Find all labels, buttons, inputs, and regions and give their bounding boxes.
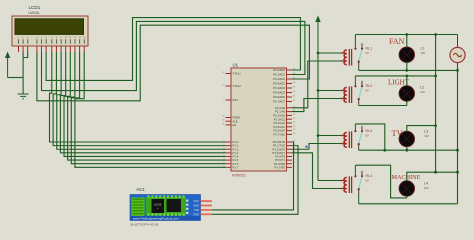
wire U1 P3.3 to RL4 coil [292, 153, 341, 189]
wire U1 P2.1 to RL2 coil [292, 99, 341, 112]
svg-text:5V: 5V [366, 133, 369, 137]
HC1 right pad column [186, 200, 188, 215]
svg-text:GND: GND [193, 204, 199, 208]
wire cell2 bottom [359, 105, 407, 107]
wire LCD D3 to U1 P1.3 [60, 52, 225, 153]
node L2 top junction [405, 75, 408, 78]
svg-text:P0.4/AD4: P0.4/AD4 [273, 86, 285, 90]
svg-text:12V: 12V [420, 90, 425, 94]
wire VCC tap RL4 [318, 180, 341, 182]
node L3 bottom junction [405, 149, 408, 152]
wire LCD RW to U1 P0.1 [42, 21, 305, 90]
wire LCD D2 to U1 P1.2 [57, 52, 226, 149]
HC1 header pads bottom [148, 213, 185, 216]
wire L3 top stub [407, 126, 436, 132]
U1 pin 23 P2.2/A10 [287, 114, 293, 116]
HC1 chip 2 [167, 199, 182, 212]
svg-text:FAN: FAN [389, 37, 405, 46]
relay RL1 contact [354, 43, 363, 67]
U1 pin 2 P1.1 [226, 145, 232, 147]
wire LCD E to U1 P0.0 [46, 18, 300, 81]
svg-text:P0.6/AD6: P0.6/AD6 [273, 95, 285, 99]
U1 pin 10 P3.0/RXD [287, 141, 293, 143]
svg-text:AT89C51: AT89C51 [232, 174, 246, 178]
HC1 banner www.TheEngineeringProjects.com [131, 216, 201, 220]
U1 pin 7 P1.6 [226, 163, 232, 165]
wire RL1 pole down [358, 67, 360, 70]
U1 pin 36 P0.3/AD3 [287, 83, 293, 85]
node cell3 leg junction [383, 149, 386, 152]
U1 pin 21 P2.0/A8 [287, 107, 293, 109]
U1 pin 28 P2.7/A15 [287, 133, 293, 135]
node rail-A cell3 junction [434, 124, 437, 127]
U1 pin 34 P0.5/AD5 [287, 92, 293, 94]
U1 pin 24 P2.3/A11 [287, 118, 293, 120]
power VCC arrow (left) [5, 52, 10, 78]
wire cell1 bottom [359, 69, 458, 71]
wire VCC tap RL3 [318, 135, 341, 137]
HC1 daughter board [146, 197, 186, 216]
wire VCC to VDD net [8, 77, 24, 79]
wire LCD D5 to U1 P1.5 [68, 52, 226, 160]
HC1 pin RXD [194, 212, 212, 216]
wire rail A [435, 35, 437, 173]
svg-text:RXD: RXD [194, 212, 200, 216]
U1 pin 3 P1.2 [226, 148, 232, 150]
node rail-A cell4 junction [434, 171, 437, 174]
relay RL3 coil [341, 131, 352, 148]
svg-text:P0.5/AD5: P0.5/AD5 [273, 91, 285, 95]
svg-text:RL2: RL2 [366, 84, 373, 88]
U1 pin 30 ALE [226, 120, 232, 122]
svg-text:P0.2/AD2: P0.2/AD2 [273, 77, 285, 81]
U1 pin 26 P2.5/A13 [287, 126, 293, 128]
svg-text:P2.7/A15: P2.7/A15 [273, 133, 285, 137]
svg-text:L3: L3 [424, 130, 428, 134]
wire cell3 bottom [359, 149, 458, 151]
node rail-A top junction [434, 33, 437, 36]
svg-text:P0.1/AD1: P0.1/AD1 [273, 73, 285, 77]
svg-text:EA: EA [233, 123, 237, 127]
svg-text:RL1: RL1 [366, 47, 373, 51]
relay RL4 coil [341, 176, 352, 193]
AC source V1 [450, 35, 465, 63]
wire VCC tap RL1 [318, 52, 341, 54]
node L1 top junction [405, 33, 408, 36]
U1 pin 29 PSEN [226, 117, 232, 119]
svg-text:12V: 12V [421, 51, 426, 55]
HC1 left connector [132, 198, 145, 217]
HC1 pin VCC [194, 199, 212, 203]
U1 pin 9 RST [226, 99, 232, 101]
svg-text:HC-05: HC-05 [154, 204, 162, 207]
wire RL4 common up [354, 165, 356, 171]
node VCC-RL2 junction [317, 89, 320, 92]
node VCC-RL3 junction [317, 134, 320, 137]
ground (left) [18, 94, 29, 99]
svg-text:TXD: TXD [194, 208, 199, 212]
HC1 chip 1 [152, 199, 165, 213]
lamp L3 [399, 131, 414, 146]
wire RL4 pole down [358, 195, 360, 204]
node L1 bottom junction [405, 69, 408, 72]
svg-text:RL3: RL3 [366, 129, 373, 133]
U1 pin 31 EA [226, 124, 232, 126]
wire cell3 top [355, 124, 384, 150]
U1 pin 16 P3.6/WR [287, 163, 293, 165]
wire VCC tap RL2 [318, 90, 341, 92]
wire LCD D6 to U1 P1.6 [71, 52, 225, 164]
power VCC arrow (right) [315, 16, 320, 54]
wire L4 bottom stub [406, 196, 408, 198]
U1 pin 13 P3.3/INT1 [287, 152, 293, 154]
wire HC1 TXD to U1 P3.0 [212, 142, 294, 210]
svg-text:5V: 5V [366, 51, 369, 55]
U1 pin 22 P2.1/A9 [287, 111, 293, 113]
wire LCD RS to U1 P0.2 [37, 25, 310, 101]
wire LCD D1 to U1 P1.1 [53, 52, 225, 146]
U1 pin 1 P1.0 [226, 141, 232, 143]
svg-text:RL4: RL4 [366, 174, 373, 178]
svg-text:LM016L: LM016L [29, 11, 41, 15]
wire LCD VSS/VDD down [22, 52, 24, 94]
svg-text:www.TheEngineeringProjects.com: www.TheEngineeringProjects.com [133, 216, 179, 220]
wire L3 bottom stub [406, 147, 408, 151]
node VCC-RL1 junction [317, 52, 320, 55]
svg-text:BLUETOOTH HC-05: BLUETOOTH HC-05 [131, 223, 159, 227]
wire RL3 common up [354, 124, 356, 126]
wire LCD D0 to U1 P1.0 [50, 52, 226, 142]
wire RL2 common up [354, 76, 356, 81]
wire LCD VEE jog [23, 52, 28, 58]
svg-text:L2: L2 [420, 86, 424, 90]
lamp L4 [399, 181, 414, 196]
wire LCD D7 to U1 P1.7 [75, 52, 226, 167]
wire RL2 pole down [358, 105, 360, 106]
wire L4 top stub [407, 172, 458, 181]
HC1 PCB [130, 195, 201, 221]
wire L2 bottom stub [406, 101, 408, 105]
relay RL4 contact [354, 171, 363, 195]
U1 pin 5 P1.4 [226, 155, 232, 157]
wire cell2 top [355, 75, 435, 77]
U1 pin 35 P0.4/AD4 [287, 87, 293, 89]
svg-text:L1: L1 [421, 47, 425, 51]
wire L2 top stub [406, 76, 408, 86]
U1 pin 19 XTAL1 [226, 73, 232, 75]
U1 pin 32 P0.7/AD7 [287, 101, 293, 103]
svg-text:P0.0/AD0: P0.0/AD0 [273, 68, 285, 72]
wire rail B [457, 62, 459, 203]
U1 pin 38 P0.1/AD1 [287, 74, 293, 76]
HC1 pin TXD [194, 208, 212, 212]
svg-text:XTAL1: XTAL1 [233, 72, 242, 76]
svg-text:RST: RST [233, 98, 239, 102]
U1 pin 11 P3.1/TXD [287, 145, 293, 147]
U1 pin 39 P0.0/AD0 [287, 69, 293, 71]
U1 pin 18 XTAL2 [226, 85, 232, 87]
HC1 header pads top [148, 195, 185, 198]
LCD screen [15, 19, 84, 35]
relay RL2 contact [354, 81, 363, 105]
svg-text:XTAL2: XTAL2 [233, 84, 242, 88]
svg-text:MACHINE: MACHINE [392, 174, 421, 181]
wire cell4 top [355, 165, 406, 198]
node rail-B jog junction [456, 171, 459, 174]
wire U1 P2.0 to RL1 coil [292, 61, 341, 108]
lamp L2 [399, 86, 414, 101]
wire U1 P3.2 to RL3 coil [292, 144, 341, 150]
U1 pin 37 P0.2/AD2 [287, 78, 293, 80]
svg-text:P1.7: P1.7 [233, 165, 239, 169]
svg-text:L4: L4 [424, 182, 428, 186]
node marker (blue) [306, 146, 308, 148]
U1 pin 12 P3.2/INT0 [287, 148, 293, 150]
U1 pin 15 P3.5/T1 [287, 159, 293, 161]
wire cell4 bottom [359, 203, 458, 205]
relay RL2 coil [341, 86, 352, 103]
U1 pin 25 P2.4/A12 [287, 122, 293, 124]
U1 pin 14 P3.4/T0 [287, 155, 293, 157]
wire LCD D4 to U1 P1.4 [64, 52, 225, 156]
svg-text:5V: 5V [366, 178, 369, 182]
wire L1 bottom stub [406, 62, 408, 70]
node rail-B cell1 junction [456, 69, 459, 72]
U1 pin 17 P3.7/RD [287, 166, 293, 168]
svg-text:P0.7/AD7: P0.7/AD7 [273, 100, 285, 104]
U1 pin 8 P1.7 [226, 166, 232, 168]
svg-text:U1: U1 [233, 63, 239, 68]
svg-text:12V: 12V [424, 134, 429, 138]
svg-text:LCD1: LCD1 [29, 5, 41, 10]
U1 pin 4 P1.3 [226, 152, 232, 154]
svg-text:12V: 12V [424, 186, 429, 190]
relay RL1 coil [341, 49, 352, 66]
svg-text:VCC: VCC [194, 199, 200, 203]
MCU U1 AT89C51 body [231, 68, 287, 171]
svg-text:5V: 5V [366, 88, 369, 92]
node rail-B cell3 junction [456, 149, 459, 152]
LCD LCD1 body [12, 16, 88, 46]
svg-text:P0.3/AD3: P0.3/AD3 [273, 82, 285, 86]
U1 pin 6 P1.5 [226, 159, 232, 161]
svg-text:P3.7/RD: P3.7/RD [274, 165, 285, 169]
wire RL3 pole down [358, 149, 360, 152]
relay RL3 contact [354, 126, 363, 150]
U1 pin 33 P0.6/AD6 [287, 96, 293, 98]
wire cell1 top [355, 34, 457, 36]
wire VCC rail down [317, 53, 319, 181]
wire RL1 common up [354, 35, 356, 44]
wire HC1 RXD to U1 P3.1 [212, 146, 298, 215]
svg-text:HC1: HC1 [137, 187, 146, 192]
lamp L1 [399, 47, 414, 62]
wire L1 top stub [406, 35, 408, 48]
node rail-A cell2 junction [434, 75, 437, 78]
HC1 pin GND [193, 204, 212, 208]
U1 pin 27 P2.6/A14 [287, 130, 293, 132]
